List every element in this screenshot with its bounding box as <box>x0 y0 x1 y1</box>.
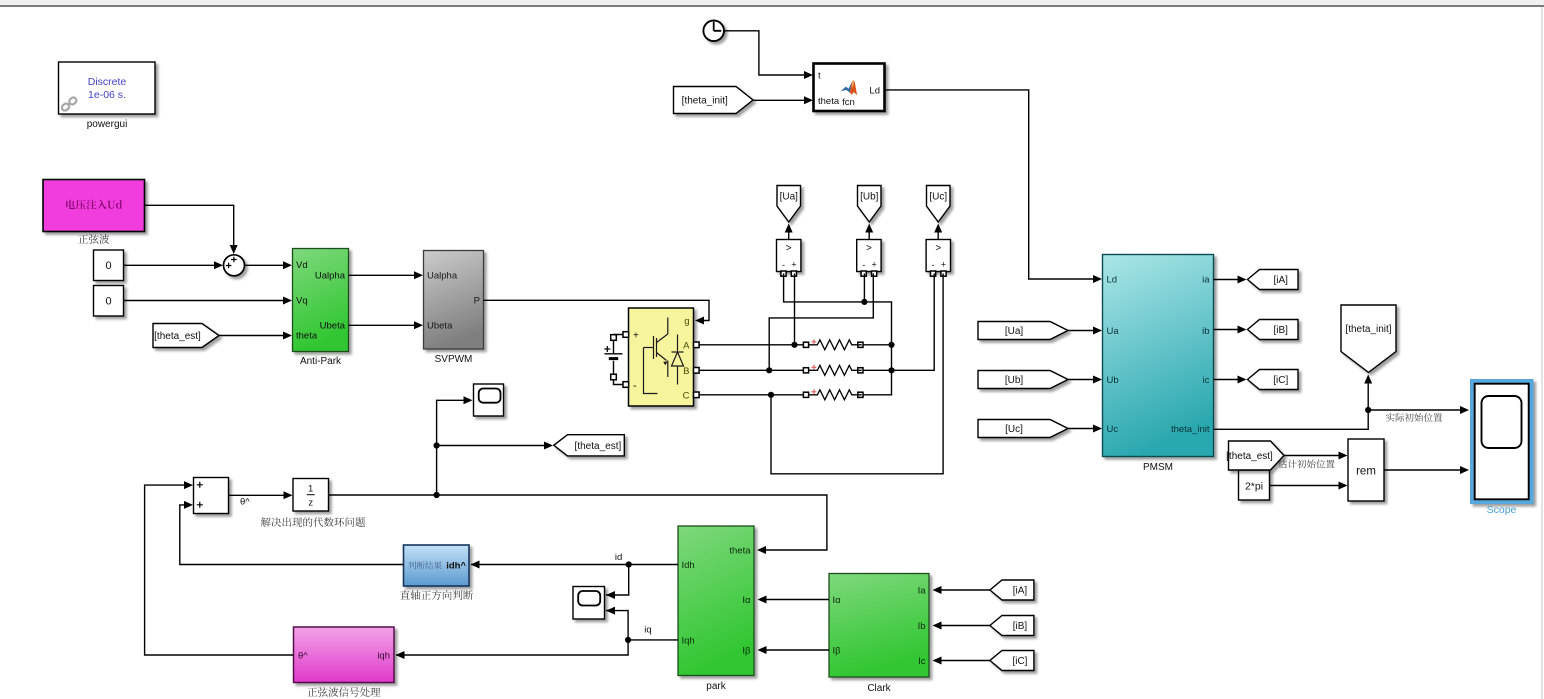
svg-text:θ^: θ^ <box>298 651 308 662</box>
svg-text:Discrete: Discrete <box>88 76 127 88</box>
svg-text:1e-06 s.: 1e-06 s. <box>88 89 126 101</box>
svg-text:ia: ia <box>1202 275 1210 286</box>
svg-text:>: > <box>786 243 792 254</box>
svg-text:[iA]: [iA] <box>1013 586 1028 597</box>
svg-text:PMSM: PMSM <box>1143 462 1173 473</box>
svg-text:[iC]: [iC] <box>1012 656 1027 667</box>
svg-text:[Uc]: [Uc] <box>1005 424 1023 435</box>
svg-text:-: - <box>932 260 935 270</box>
svg-text:Ua: Ua <box>1107 326 1120 337</box>
svg-text:+: + <box>633 331 639 342</box>
svg-text:P: P <box>474 296 480 307</box>
svg-text:[Ub]: [Ub] <box>860 191 879 202</box>
svg-text:[Ua]: [Ua] <box>1005 326 1024 337</box>
svg-text:+: + <box>791 260 796 270</box>
svg-text:ib: ib <box>1202 326 1209 337</box>
svg-text:theta: theta <box>818 96 840 107</box>
svg-text:idh^: idh^ <box>446 561 466 572</box>
svg-text:[Ub]: [Ub] <box>1005 375 1024 386</box>
svg-text:+: + <box>871 260 876 270</box>
svg-text:Uc: Uc <box>1107 424 1119 435</box>
svg-text:-: - <box>633 380 637 392</box>
svg-text:theta: theta <box>296 331 318 342</box>
svg-text:Vd: Vd <box>296 260 308 271</box>
svg-text:0: 0 <box>105 296 111 308</box>
svg-text:[theta_est]: [theta_est] <box>575 441 622 452</box>
svg-text:Idh: Idh <box>682 560 695 571</box>
svg-text:-: - <box>862 260 865 270</box>
svg-text:[theta_init]: [theta_init] <box>682 96 728 107</box>
svg-text:g: g <box>684 316 689 327</box>
svg-text:>: > <box>866 243 872 254</box>
svg-text:[iB]: [iB] <box>1274 325 1289 336</box>
svg-text:Ib: Ib <box>918 621 926 632</box>
svg-text:C: C <box>683 391 690 402</box>
svg-text:+: + <box>941 260 946 270</box>
svg-text:Ld: Ld <box>869 86 880 97</box>
svg-text:[iC]: [iC] <box>1273 375 1288 386</box>
svg-text:z: z <box>308 498 313 509</box>
svg-text:Ic: Ic <box>918 656 926 667</box>
svg-text:2*pi: 2*pi <box>1245 481 1263 493</box>
svg-text:Iβ: Iβ <box>833 646 842 657</box>
svg-text:theta_init: theta_init <box>1171 424 1210 435</box>
svg-text:-: - <box>782 260 785 270</box>
svg-text:[iB]: [iB] <box>1013 621 1028 632</box>
svg-text:Iα: Iα <box>833 595 842 606</box>
svg-text:rem: rem <box>1356 466 1376 478</box>
svg-text:fcn: fcn <box>842 97 855 108</box>
svg-text:Ubeta: Ubeta <box>320 321 346 332</box>
svg-text:theta: theta <box>729 546 751 557</box>
svg-text:[theta_est]: [theta_est] <box>1226 451 1273 462</box>
svg-text:Ualpha: Ualpha <box>315 271 346 282</box>
svg-text:Ubeta: Ubeta <box>427 321 453 332</box>
svg-text:B: B <box>683 366 689 377</box>
svg-text:[iA]: [iA] <box>1274 275 1289 286</box>
svg-text:Iβ: Iβ <box>742 646 751 657</box>
svg-text:Anti-Park: Anti-Park <box>300 356 342 367</box>
svg-text:ic: ic <box>1203 375 1210 386</box>
svg-text:iq: iq <box>644 625 651 636</box>
svg-text:[Ua]: [Ua] <box>780 191 799 202</box>
svg-text:Ld: Ld <box>1107 275 1118 286</box>
svg-text:Clark: Clark <box>867 683 891 694</box>
svg-text:[theta_est]: [theta_est] <box>154 331 201 342</box>
svg-text:1: 1 <box>308 484 313 495</box>
svg-text:Ub: Ub <box>1107 375 1119 386</box>
svg-text:Iα: Iα <box>742 595 751 606</box>
svg-text:powergui: powergui <box>87 119 128 130</box>
svg-text:θ^: θ^ <box>240 497 250 508</box>
svg-text:id: id <box>615 552 622 563</box>
svg-text:t: t <box>818 71 821 82</box>
svg-text:[theta_init]: [theta_init] <box>1345 324 1391 335</box>
svg-text:Ualpha: Ualpha <box>427 271 458 282</box>
svg-text:[Uc]: [Uc] <box>929 191 947 202</box>
svg-text:SVPWM: SVPWM <box>435 354 473 365</box>
svg-text:Vq: Vq <box>296 296 308 307</box>
svg-text:Iqh: Iqh <box>682 636 695 647</box>
svg-text:Ia: Ia <box>918 586 927 597</box>
svg-text:A: A <box>683 341 690 352</box>
svg-text:0: 0 <box>105 260 111 272</box>
svg-text:park: park <box>706 681 726 692</box>
svg-text:>: > <box>935 243 941 254</box>
svg-text:iqh: iqh <box>377 651 390 662</box>
svg-text:Scope: Scope <box>1487 504 1517 516</box>
